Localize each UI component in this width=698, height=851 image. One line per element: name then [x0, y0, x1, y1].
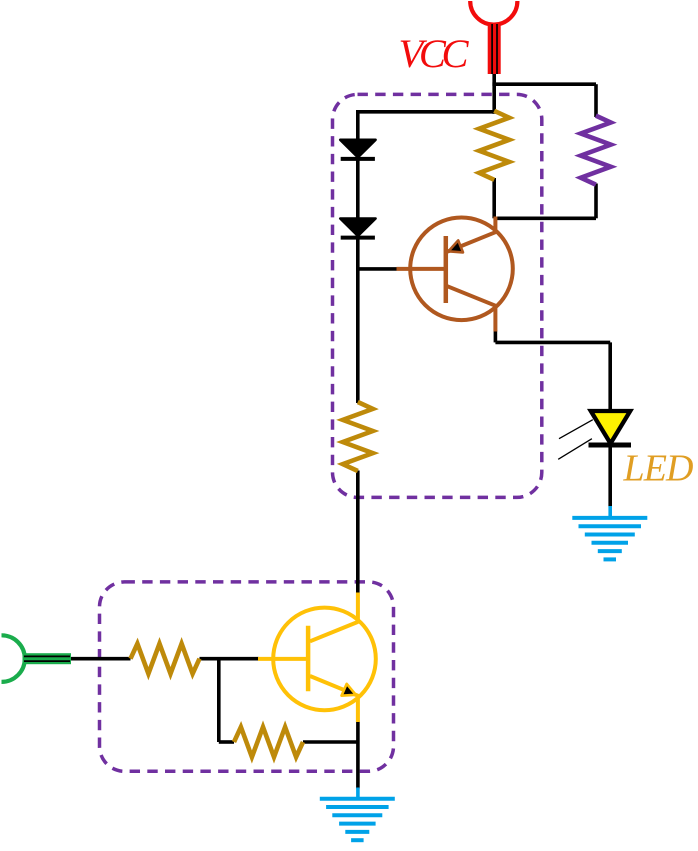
svg-text:VCC: VCC: [399, 31, 470, 76]
svg-text:LED: LED: [623, 447, 694, 489]
